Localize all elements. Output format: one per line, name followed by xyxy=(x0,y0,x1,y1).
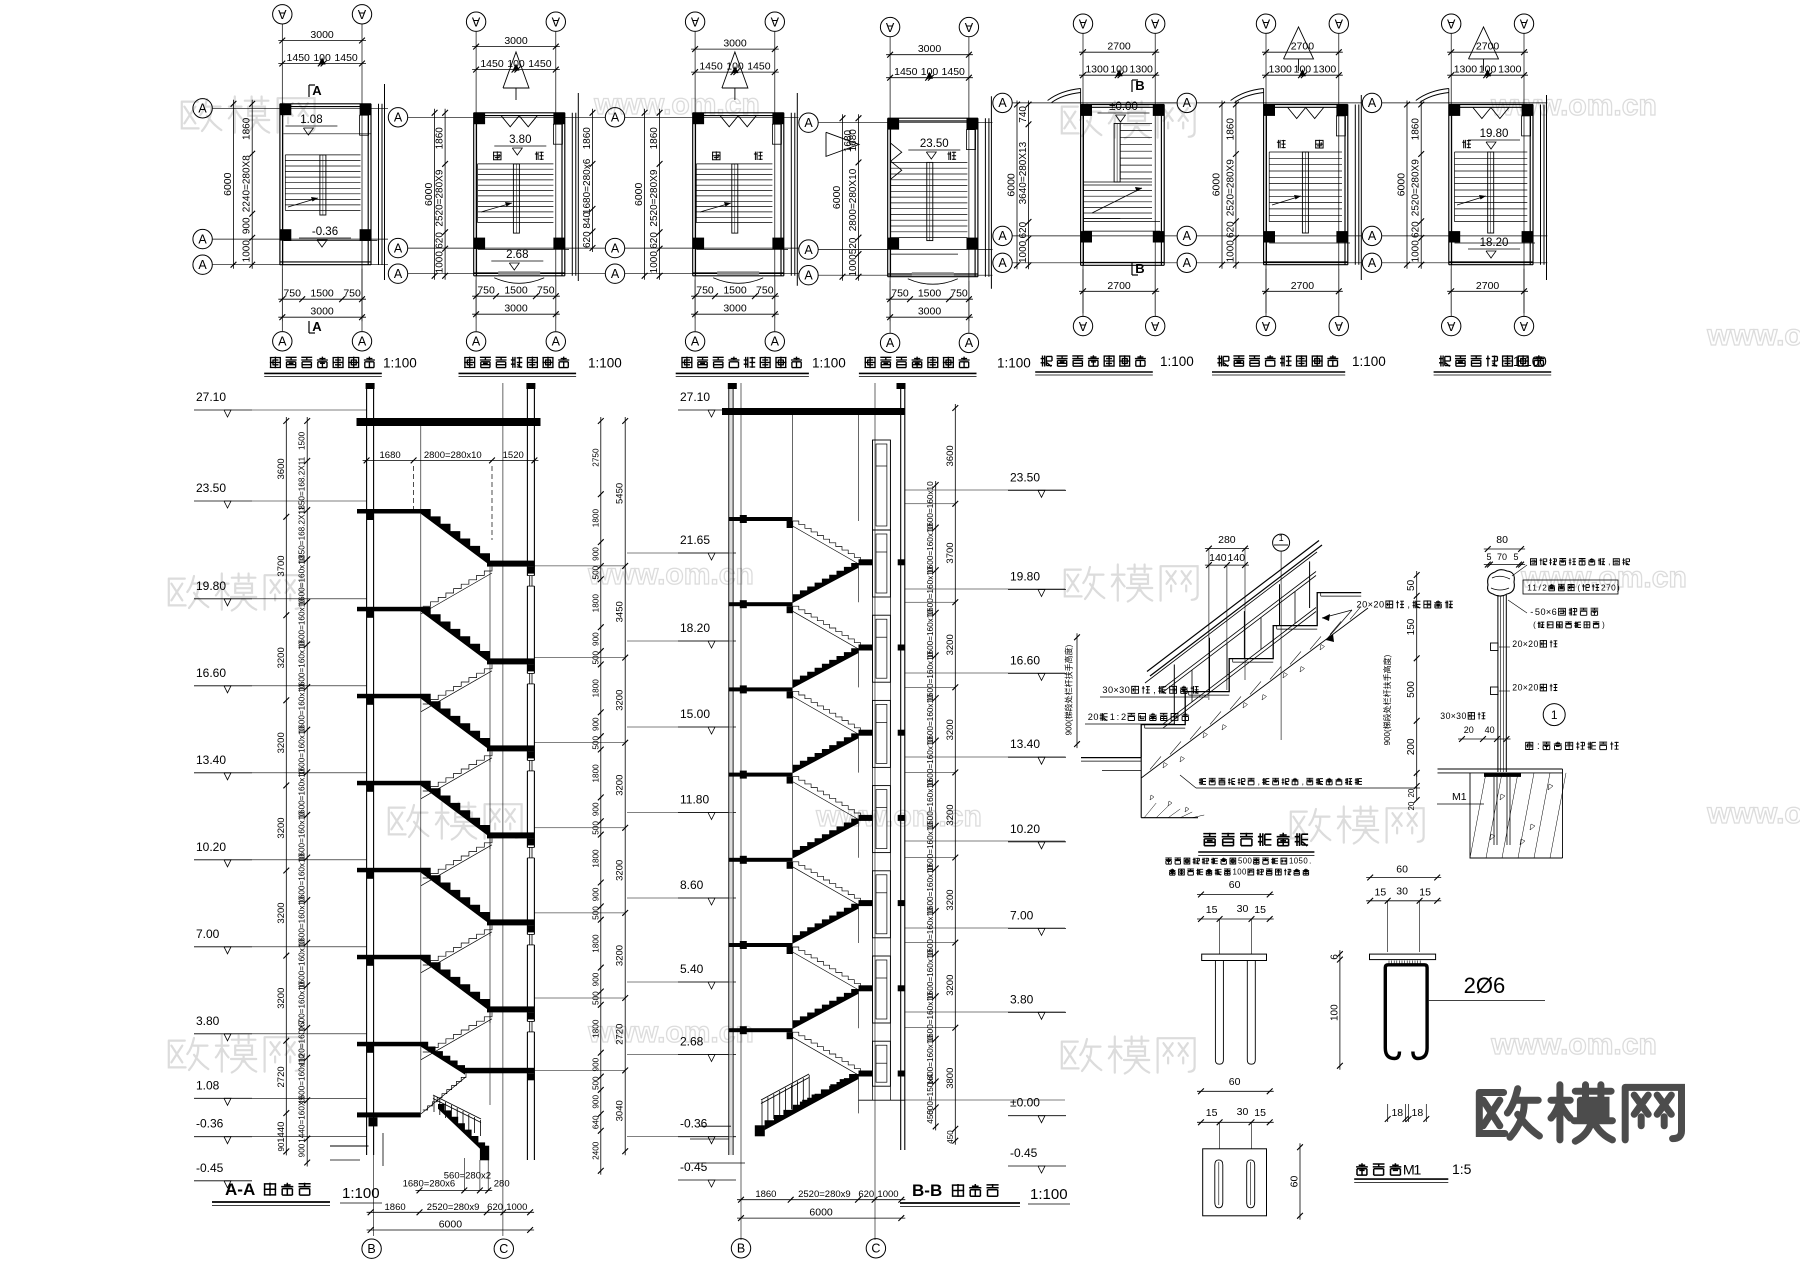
plan 3: bottom dims xyxy=(691,295,779,297)
plan 4: left axis circles xyxy=(799,113,818,132)
B-B floor 3 black flight xyxy=(793,819,859,859)
B-B roof slab xyxy=(722,408,905,415)
railing detail: landing block xyxy=(1140,758,1142,818)
A-A floor 3 verticals xyxy=(420,785,422,883)
svg-text:3000: 3000 xyxy=(310,306,334,318)
B-B ground lines xyxy=(700,1125,731,1127)
svg-text:A-A: A-A xyxy=(225,1180,255,1199)
plan 2: text 下 xyxy=(535,152,544,160)
svg-text:1450: 1450 xyxy=(480,58,504,70)
svg-text:30: 30 xyxy=(1237,903,1249,915)
B-B left wall xyxy=(728,383,730,1155)
plan 5: corner columns xyxy=(1081,105,1092,116)
B-B right level connector lines xyxy=(905,503,956,505)
plan 2: bottom dims xyxy=(472,295,560,297)
svg-text:,: , xyxy=(1302,777,1304,786)
svg-text:A: A xyxy=(611,111,620,125)
B-B floor 2 left slab xyxy=(729,687,793,691)
A-A floor 6 black flight short xyxy=(421,1042,465,1075)
svg-text:1860: 1860 xyxy=(755,1189,776,1200)
A-A ground lines xyxy=(330,1145,369,1147)
A-A floor 4 return flight thin xyxy=(423,925,492,965)
svg-text:3200: 3200 xyxy=(945,634,956,655)
svg-text:19.80: 19.80 xyxy=(196,579,226,593)
railing detail: panel rails xyxy=(1163,572,1316,689)
svg-text:2400: 2400 xyxy=(592,1141,601,1160)
svg-text:1600=160x10: 1600=160x10 xyxy=(926,864,935,914)
svg-text:2: 2 xyxy=(1512,683,1517,693)
svg-text:(: ( xyxy=(1577,583,1580,592)
svg-text:3200: 3200 xyxy=(615,775,626,796)
A-A left level lines xyxy=(252,409,367,411)
svg-text:3200: 3200 xyxy=(276,817,287,838)
svg-text:900: 900 xyxy=(242,217,253,234)
plan 2: corner columns xyxy=(474,113,485,124)
plan 3: top axis circles xyxy=(685,12,704,31)
plan 1: left dim chain 6000 xyxy=(233,100,235,269)
svg-text:1:100: 1:100 xyxy=(342,1185,380,1202)
plan 7: bottom dims xyxy=(1447,290,1528,292)
railing detail: title xyxy=(1203,833,1216,846)
plan 5: bottom dims xyxy=(1079,290,1159,292)
plan 4: title 主楼梯顶层平面 xyxy=(865,357,876,369)
svg-text:3000: 3000 xyxy=(504,35,528,47)
B-B floor 2 verticals xyxy=(792,691,794,772)
svg-text:1: 1 xyxy=(1233,868,1237,877)
B-B floor 1 verticals xyxy=(792,606,794,687)
B-B floor 4 black flight xyxy=(793,904,859,944)
plan 4: left dim chain 6000 xyxy=(842,114,844,281)
plan 2: direction arrow xyxy=(481,203,512,212)
plan 7: left axis circles xyxy=(1362,93,1381,112)
A-A floor 4 landing slab left xyxy=(357,868,421,873)
svg-text:1: 1 xyxy=(1532,583,1537,592)
plan 6: stringer xyxy=(1302,152,1308,233)
svg-text:3: 3 xyxy=(1440,711,1445,721)
A-A floor 2 landing slab left xyxy=(357,694,421,699)
plan 5: outer walls xyxy=(1080,105,1082,266)
A-A floor 5 verticals xyxy=(420,959,422,1057)
svg-text:280: 280 xyxy=(1218,534,1236,546)
svg-text:1300: 1300 xyxy=(1130,64,1154,76)
A-A floor 3 return flight thin xyxy=(423,838,492,878)
plan 4: door sill xyxy=(912,272,954,276)
plan 5: direction arrow xyxy=(1092,188,1142,213)
svg-text:1850=168.2X11: 1850=168.2X11 xyxy=(298,456,307,514)
svg-text:19.80: 19.80 xyxy=(1010,570,1040,584)
plan 7: stringer xyxy=(1488,152,1494,233)
svg-text:A: A xyxy=(1334,17,1343,31)
B-B floor 1 window xyxy=(873,615,891,682)
svg-text:1600=160x10: 1600=160x10 xyxy=(926,524,935,574)
svg-text:3000: 3000 xyxy=(918,43,942,55)
svg-text:900: 900 xyxy=(592,632,601,646)
plan 1: corner columns xyxy=(280,104,291,115)
post detail: circled 1 xyxy=(1543,704,1565,726)
svg-text:280: 280 xyxy=(494,1179,510,1190)
railing detail: panel mid bars xyxy=(1191,670,1193,702)
svg-text:1600=160x10: 1600=160x10 xyxy=(926,779,935,829)
svg-text:15.00: 15.00 xyxy=(680,707,710,721)
railing detail: step tread double lines xyxy=(1145,727,1186,729)
svg-text:A: A xyxy=(998,96,1007,110)
plan 6: top overall dim xyxy=(1262,51,1343,53)
plan 6: text 上 xyxy=(1315,140,1324,149)
B-B floor 6 verticals xyxy=(792,1032,794,1113)
svg-text:450: 450 xyxy=(946,1130,955,1144)
plan 5: title 副楼梯一层平面 xyxy=(1041,356,1052,367)
svg-text:16.60: 16.60 xyxy=(196,666,226,680)
svg-text:1600=160x10: 1600=160x10 xyxy=(298,640,307,690)
plan 6: top axis circles xyxy=(1256,14,1275,33)
svg-text:1000: 1000 xyxy=(1018,240,1029,263)
svg-text:2720: 2720 xyxy=(615,1024,626,1045)
svg-text:-0.45: -0.45 xyxy=(680,1160,708,1174)
svg-text:750: 750 xyxy=(537,285,555,297)
svg-text:15: 15 xyxy=(1254,1107,1266,1119)
B-B floor 3 thin flight xyxy=(793,777,861,817)
plan 3: direction arrow xyxy=(700,203,731,212)
svg-text:1800: 1800 xyxy=(592,934,601,953)
M1 detail2: slots xyxy=(1215,1160,1223,1208)
svg-text:620: 620 xyxy=(1225,221,1236,238)
svg-text:3600: 3600 xyxy=(945,445,956,466)
plan 1: direction arrow xyxy=(288,198,318,207)
svg-text:1800: 1800 xyxy=(592,849,601,868)
svg-text:2: 2 xyxy=(1373,600,1378,610)
svg-text:1450: 1450 xyxy=(699,61,723,73)
B-B bottom flight with railing xyxy=(765,1074,859,1130)
B-B floor 3 verticals xyxy=(792,777,794,858)
svg-text:6000: 6000 xyxy=(1211,173,1223,197)
svg-text:750: 750 xyxy=(343,288,361,300)
svg-text:0: 0 xyxy=(1093,712,1098,722)
A-A 1.08 mid landing xyxy=(463,1068,534,1074)
plan 3: top split dim 1450/100/1450 xyxy=(691,71,779,73)
B-B floor 4 thin flight xyxy=(793,862,861,902)
A-A floor 1 right wall window slit xyxy=(526,673,536,684)
svg-text:1: 1 xyxy=(1110,712,1115,722)
svg-text:620: 620 xyxy=(858,1189,874,1200)
plan 3: text 上 xyxy=(712,151,721,160)
railing detail: left landing surface xyxy=(1081,757,1141,759)
svg-text:900: 900 xyxy=(592,1057,601,1071)
svg-text:2800=280x10: 2800=280x10 xyxy=(424,450,482,461)
svg-text:1680=280x6: 1680=280x6 xyxy=(582,158,593,214)
svg-text:100: 100 xyxy=(1329,1004,1340,1021)
svg-text:A: A xyxy=(1519,319,1528,333)
B-B floor 5 left slab xyxy=(729,943,793,947)
svg-text:±0.00: ±0.00 xyxy=(1109,101,1138,113)
plan 5: lower flight treads xyxy=(1083,184,1152,186)
svg-text:1850=168.2X11: 1850=168.2X11 xyxy=(298,506,307,564)
A-A floor 2 mid landing right xyxy=(487,745,534,751)
svg-text:1680: 1680 xyxy=(380,450,401,461)
svg-text:A: A xyxy=(1150,17,1159,31)
post detail: slab hatch xyxy=(1470,773,1563,858)
svg-text:1600=160x10: 1600=160x10 xyxy=(926,822,935,872)
svg-text:-0.45: -0.45 xyxy=(196,1161,224,1175)
svg-text:A: A xyxy=(1334,319,1343,333)
svg-text:19.80: 19.80 xyxy=(1480,128,1509,140)
svg-text:A: A xyxy=(198,258,207,272)
svg-text:2: 2 xyxy=(1121,712,1126,722)
svg-text:1860: 1860 xyxy=(385,1202,406,1213)
svg-text:20: 20 xyxy=(1407,788,1416,797)
svg-text:15: 15 xyxy=(1375,887,1387,899)
A-A floor 0 mid landing right xyxy=(487,561,534,567)
svg-text:23.50: 23.50 xyxy=(920,138,949,150)
plan 2: top overall dim xyxy=(472,46,560,48)
A-A floor 0 verticals xyxy=(420,513,422,611)
svg-text:1.08: 1.08 xyxy=(196,1078,220,1092)
svg-text:1600=160x10: 1600=160x10 xyxy=(926,694,935,744)
svg-text:60: 60 xyxy=(1229,1076,1241,1088)
svg-text:B: B xyxy=(1135,261,1144,276)
M1 detail2: right dim 60 xyxy=(1299,1143,1301,1220)
B-B pm0.00 level line xyxy=(859,1099,905,1101)
plan 4: horizontal axis lines xyxy=(819,122,993,124)
plan 7: top overall dim xyxy=(1447,51,1528,53)
plan 1: left dim sub-chain xyxy=(251,100,253,269)
svg-text:1500: 1500 xyxy=(298,431,307,450)
svg-text:A: A xyxy=(1368,96,1377,110)
plan 1: bottom axis circles xyxy=(273,332,292,351)
svg-text:1800: 1800 xyxy=(592,1019,601,1038)
A-A floor 6 landing slab left xyxy=(357,1042,421,1047)
plan 6: text 下 xyxy=(1277,140,1286,148)
B-B floor 2 window xyxy=(873,700,891,767)
M1 detail1: plate xyxy=(1202,954,1267,960)
svg-text:×: × xyxy=(1546,607,1551,617)
svg-text:1450: 1450 xyxy=(747,61,771,73)
svg-text:A: A xyxy=(357,7,366,21)
svg-text:): ) xyxy=(1617,583,1620,592)
svg-text:1600=160x10: 1600=160x10 xyxy=(926,481,935,531)
A-A floor 4 verticals xyxy=(420,872,422,970)
svg-text:1000: 1000 xyxy=(1225,240,1236,263)
svg-text:,: , xyxy=(1153,685,1156,695)
svg-text:3200: 3200 xyxy=(276,732,287,753)
svg-text:2700: 2700 xyxy=(1476,280,1500,292)
B-B floor 1 mid landing xyxy=(859,645,873,651)
svg-text:A: A xyxy=(1183,256,1192,270)
svg-text:A: A xyxy=(1368,229,1377,243)
A-A top dim 1680/2800/1520 xyxy=(363,459,539,461)
svg-text:-0.36: -0.36 xyxy=(196,1117,224,1131)
svg-text:60: 60 xyxy=(1289,1176,1301,1188)
svg-text:1.08: 1.08 xyxy=(300,114,322,126)
A-A right inner dim chain xyxy=(600,417,602,1175)
svg-text:620: 620 xyxy=(1018,221,1029,238)
svg-text:15: 15 xyxy=(1254,904,1266,916)
svg-text:3200: 3200 xyxy=(276,988,287,1009)
svg-text:1600=160x10: 1600=160x10 xyxy=(926,907,935,957)
plan 3: top overall dim xyxy=(691,48,779,50)
B-B floor 6 thin flight xyxy=(793,1032,861,1072)
B-B bottom dim chains xyxy=(737,1199,905,1201)
svg-text:1800: 1800 xyxy=(592,679,601,698)
B-B floor 3 mid landing xyxy=(859,815,873,821)
svg-text:2240=280X8: 2240=280X8 xyxy=(242,155,253,212)
svg-text:7.00: 7.00 xyxy=(1010,908,1034,922)
M1 detail1: anchor rods xyxy=(1215,961,1223,1065)
plan 6: eave arcs xyxy=(1231,89,1264,101)
railing detail: landing block hatch xyxy=(1144,803,1156,818)
svg-text:750: 750 xyxy=(477,285,495,297)
plan 6: corner columns xyxy=(1264,105,1275,116)
plan 6: bottom axis circles xyxy=(1256,316,1275,335)
B-B axis verticals xyxy=(740,383,742,1240)
svg-text:80: 80 xyxy=(1496,534,1508,546)
A-A floor 4 right wall window slit xyxy=(526,934,536,945)
plan 1: top split dim 1450/100/1450 xyxy=(278,63,366,65)
svg-text:1500: 1500 xyxy=(504,285,528,297)
svg-text:5450: 5450 xyxy=(615,483,626,504)
post detail: vertical dim chain 50/150/500/200 xyxy=(1416,571,1418,777)
B-B floor 0 black flight xyxy=(793,563,859,603)
svg-text:900: 900 xyxy=(592,887,601,901)
plan 5: bottom axis circles xyxy=(1073,316,1092,335)
svg-text:0: 0 xyxy=(1379,600,1384,610)
plan 7: corner columns xyxy=(1449,105,1460,116)
svg-text:0: 0 xyxy=(1242,868,1247,877)
plan 1: left axis circles xyxy=(193,99,212,118)
svg-text:500: 500 xyxy=(592,565,601,579)
mid level connector lines between sections xyxy=(627,552,729,554)
plan 4: bottom axis circles xyxy=(880,333,899,352)
svg-text:A: A xyxy=(885,20,894,34)
svg-text:560=280x2: 560=280x2 xyxy=(444,1171,491,1182)
plan 2: bottom axis circles xyxy=(466,332,485,351)
svg-text:1860: 1860 xyxy=(242,117,253,140)
svg-text:500: 500 xyxy=(592,1076,601,1090)
A-A floor 2 black flight xyxy=(421,694,490,750)
plan 4: top axis circles xyxy=(880,17,899,36)
A-A floor 0 right wall window slit xyxy=(526,576,536,587)
M1 detail2: plate plan xyxy=(1203,1149,1267,1216)
svg-text:15: 15 xyxy=(1206,1107,1218,1119)
svg-text:8.60: 8.60 xyxy=(680,878,704,892)
plan 7: top axis circles xyxy=(1442,14,1461,33)
svg-text:900: 900 xyxy=(592,972,601,986)
svg-text:5: 5 xyxy=(1535,607,1540,617)
plan 2: top axis circles xyxy=(466,12,485,31)
svg-text:18.20: 18.20 xyxy=(680,621,710,635)
svg-text:450: 450 xyxy=(926,1110,935,1124)
svg-text:C: C xyxy=(871,1242,880,1256)
svg-text:A: A xyxy=(998,256,1007,270)
svg-text:3: 3 xyxy=(1456,711,1461,721)
svg-text:3200: 3200 xyxy=(945,975,956,996)
svg-text:23.50: 23.50 xyxy=(196,481,226,495)
B-B floor 1 black flight xyxy=(793,648,859,688)
svg-text:×: × xyxy=(1523,639,1528,649)
B-B floor 6 window xyxy=(873,1041,891,1086)
svg-text:6000: 6000 xyxy=(1396,173,1408,197)
svg-text:-0.36: -0.36 xyxy=(680,1117,708,1131)
A-A floor 0 black flight xyxy=(421,509,490,565)
svg-text:900: 900 xyxy=(298,1143,307,1157)
svg-text:140: 140 xyxy=(1228,552,1246,564)
svg-text:A: A xyxy=(964,20,973,34)
plan 5: eave arcs xyxy=(1048,89,1081,101)
plan 4: top split dim 1450/100/1450 xyxy=(886,77,973,79)
B-B top flight edge verticals xyxy=(792,415,794,517)
svg-text:-: - xyxy=(1530,607,1533,617)
svg-text:A: A xyxy=(394,241,403,255)
plan 6: top split dim 1450/100/1450 xyxy=(1262,74,1343,76)
svg-text:www.om.cn: www.om.cn xyxy=(1490,1028,1657,1061)
svg-text:1300: 1300 xyxy=(1454,64,1478,76)
svg-text:1450: 1450 xyxy=(942,66,966,78)
B-B floor 2 thin flight xyxy=(793,691,861,731)
A-A left outer dim chain xyxy=(285,417,287,1155)
A-A floor 5 black flight xyxy=(421,955,490,1011)
A-A floor 0 return flight thin xyxy=(423,567,492,607)
svg-text:60: 60 xyxy=(1229,879,1241,891)
svg-text:0: 0 xyxy=(1362,600,1367,610)
plan 7: text 下 xyxy=(1462,140,1471,148)
svg-text:6000: 6000 xyxy=(222,172,234,196)
svg-text:1800: 1800 xyxy=(592,764,601,783)
svg-text:,: , xyxy=(1407,600,1410,610)
plan 4: bottom dims xyxy=(886,298,973,300)
svg-text:A: A xyxy=(1078,319,1087,333)
svg-text:A: A xyxy=(394,267,403,281)
svg-text:A: A xyxy=(804,116,813,130)
svg-text:1860: 1860 xyxy=(582,127,593,150)
plan 1: outer walls xyxy=(279,104,281,265)
svg-text:0: 0 xyxy=(1461,711,1466,721)
svg-text:×: × xyxy=(1368,600,1373,610)
svg-text:620: 620 xyxy=(1411,221,1422,238)
svg-text:3: 3 xyxy=(1102,685,1107,695)
svg-text:A: A xyxy=(551,15,560,29)
svg-text:1680: 1680 xyxy=(843,129,854,152)
A-A floor 2 return flight thin xyxy=(423,751,492,791)
A-A axis verticals xyxy=(373,383,375,1236)
svg-text:750: 750 xyxy=(950,288,968,300)
svg-text:A: A xyxy=(1519,17,1528,31)
svg-text:1600=160x10: 1600=160x10 xyxy=(926,950,935,1000)
plan 2: door symbol xyxy=(501,116,519,127)
plan 3: left dim sub-chain xyxy=(659,109,661,280)
A-A floor 4 black flight xyxy=(421,868,490,924)
plan 2: triangle symbol xyxy=(503,52,529,88)
A-A floor 1 verticals xyxy=(420,611,422,709)
svg-text:): ) xyxy=(1602,621,1605,630)
svg-text:2520=280X9: 2520=280X9 xyxy=(1225,159,1236,216)
svg-text:0: 0 xyxy=(1533,639,1538,649)
A-A flight edge verticals top (dashed) xyxy=(413,466,415,513)
post detail: post bars xyxy=(1497,595,1499,772)
svg-text:900: 900 xyxy=(592,547,601,561)
svg-text:A: A xyxy=(198,232,207,246)
svg-text:A: A xyxy=(471,15,480,29)
B-B floor 5 verticals xyxy=(792,947,794,1028)
svg-text:×: × xyxy=(1451,711,1456,721)
svg-text:6000: 6000 xyxy=(1006,173,1018,197)
svg-text:1450: 1450 xyxy=(334,52,358,64)
A-A right outer dim chain xyxy=(624,417,626,1155)
svg-text:1600=160x10: 1600=160x10 xyxy=(926,737,935,787)
svg-text:A: A xyxy=(1183,96,1192,110)
plan 2: title 主楼梯二层平面 xyxy=(464,357,475,369)
svg-text:18: 18 xyxy=(1391,1107,1403,1119)
big logo watermark 欧模网 xyxy=(1479,1089,1539,1138)
B-B floor 0 window xyxy=(873,530,891,597)
